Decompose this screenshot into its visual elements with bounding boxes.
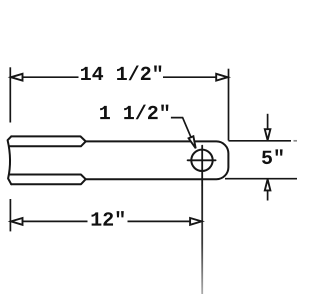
top dimension line segments <box>12 76 79 78</box>
leader for 1 1/2 <box>171 118 194 144</box>
arrowhead 5in top <box>265 129 271 140</box>
5in top extension line faint tail <box>294 140 298 142</box>
hole centerline vertical (upper) <box>201 146 203 185</box>
tube top band <box>10 136 86 146</box>
label 1 1/2" <box>100 105 168 120</box>
5in top arrow tail <box>267 114 269 129</box>
bottom dimension line segments <box>12 220 88 222</box>
arrowhead top dim left <box>11 74 23 81</box>
arrowhead bottom dim right <box>190 218 202 225</box>
hole circle <box>191 150 212 171</box>
tube left end edge <box>8 136 12 184</box>
label 14 1/2" <box>81 65 161 80</box>
ext line top-right <box>228 69 230 141</box>
tube bottom band <box>10 175 86 185</box>
hole crosshair horizontal <box>188 159 216 161</box>
hole centerline vertical (lower, fading) <box>201 185 203 294</box>
ext line bottom-left <box>9 199 11 231</box>
5in bottom extension line <box>225 178 297 180</box>
5in bottom arrow tail <box>267 191 269 201</box>
5in top extension line <box>229 140 292 142</box>
arrowhead top dim right <box>216 74 228 81</box>
ext line top-left <box>9 67 11 122</box>
label 12" <box>92 211 124 226</box>
label 5" <box>262 149 283 164</box>
arrowhead leader <box>189 136 196 148</box>
arrowhead bottom dim left <box>11 218 23 225</box>
arrowhead 5in bottom <box>265 179 271 190</box>
bar and eye outline <box>86 141 229 179</box>
